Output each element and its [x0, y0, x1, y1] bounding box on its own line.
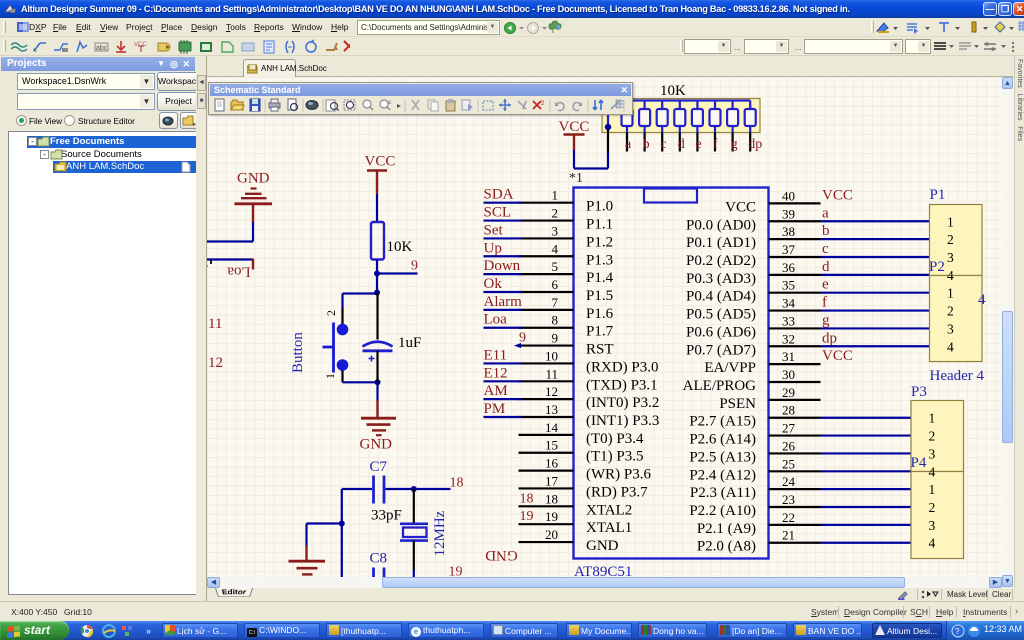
svg-text:Ok: Ok [484, 276, 503, 292]
svg-text:20: 20 [545, 527, 558, 542]
svg-text:1: 1 [323, 373, 337, 379]
svg-text:3: 3 [947, 250, 954, 265]
svg-text:SDA: SDA [484, 187, 514, 203]
svg-text:P1.4: P1.4 [586, 270, 614, 286]
svg-text:a: a [625, 137, 632, 152]
svg-text:VCC: VCC [559, 119, 590, 135]
svg-text:23: 23 [782, 492, 795, 507]
svg-text:P2.4 (A12): P2.4 (A12) [689, 467, 756, 483]
svg-text:ALE/PROG: ALE/PROG [683, 378, 757, 394]
svg-text:4: 4 [929, 536, 936, 551]
svg-text:b: b [822, 223, 830, 239]
svg-text:AM: AM [484, 383, 508, 399]
svg-text:d: d [822, 259, 830, 275]
svg-text:E11: E11 [484, 347, 508, 363]
svg-text:g: g [731, 137, 738, 152]
svg-text:2: 2 [929, 429, 936, 444]
svg-text:17: 17 [545, 473, 559, 488]
svg-text:P2: P2 [929, 259, 945, 275]
svg-text:Loa: Loa [227, 264, 251, 280]
svg-text:1: 1 [947, 214, 954, 229]
svg-text:P0.7 (AD7): P0.7 (AD7) [686, 342, 756, 358]
svg-text:P1.5: P1.5 [586, 288, 613, 304]
svg-text:P0.1 (AD1): P0.1 (AD1) [686, 235, 756, 251]
svg-text:Up: Up [484, 240, 502, 256]
svg-text:a: a [822, 205, 829, 221]
svg-text:24: 24 [782, 474, 796, 489]
svg-text:Set: Set [484, 222, 504, 238]
svg-text:2: 2 [541, 101, 545, 107]
svg-text:d: d [678, 137, 685, 152]
svg-text:19: 19 [545, 509, 558, 524]
svg-text:GND: GND [485, 547, 518, 563]
svg-text:1: 1 [929, 411, 936, 426]
svg-text:(WR) P3.6: (WR) P3.6 [586, 467, 651, 483]
svg-text:P2.1 (A9): P2.1 (A9) [697, 521, 756, 537]
svg-text:2: 2 [947, 304, 954, 319]
svg-text:12MHz: 12MHz [432, 510, 448, 556]
svg-text:2: 2 [324, 310, 338, 316]
svg-text:12: 12 [208, 355, 223, 371]
svg-text:7: 7 [552, 295, 559, 310]
svg-text:P1.1: P1.1 [586, 217, 613, 233]
svg-text:(RXD) P3.0: (RXD) P3.0 [586, 359, 659, 375]
svg-text:1uF: 1uF [398, 335, 421, 351]
svg-text:35: 35 [782, 278, 795, 293]
svg-text:Loa: Loa [484, 312, 508, 328]
svg-text:AT89C51: AT89C51 [574, 564, 632, 577]
svg-text:P1.0: P1.0 [586, 199, 613, 215]
svg-text:9: 9 [552, 331, 559, 346]
svg-text:s: s [388, 100, 391, 106]
svg-text:19: 19 [520, 509, 534, 524]
svg-text:P1: P1 [930, 187, 946, 203]
svg-text:P2.3 (A11): P2.3 (A11) [690, 485, 756, 501]
svg-text:abc: abc [96, 45, 108, 52]
svg-text:3: 3 [947, 321, 954, 336]
svg-text:18: 18 [450, 476, 464, 491]
svg-text:19: 19 [449, 565, 463, 578]
svg-text:c: c [822, 241, 829, 257]
svg-text:P2.5 (A13): P2.5 (A13) [689, 449, 756, 465]
svg-text:9: 9 [411, 259, 418, 274]
svg-text:1: 1 [552, 188, 559, 203]
svg-text:36: 36 [782, 260, 796, 275]
svg-text:c: c [660, 137, 666, 152]
svg-text:P2.6 (A14): P2.6 (A14) [689, 432, 756, 448]
svg-text:21: 21 [782, 528, 795, 543]
svg-text:»: » [146, 626, 151, 636]
svg-text:XTAL2: XTAL2 [586, 502, 632, 518]
svg-text:GND: GND [237, 171, 270, 187]
svg-text:25: 25 [782, 456, 795, 471]
svg-text:f: f [822, 295, 827, 311]
svg-text:14: 14 [545, 420, 559, 435]
svg-text:C8: C8 [370, 551, 388, 567]
svg-text:XTAL1: XTAL1 [586, 520, 632, 536]
svg-text:Down: Down [484, 258, 521, 274]
svg-text:Header 4: Header 4 [930, 368, 985, 384]
svg-text:1: 1 [929, 482, 936, 497]
svg-text:12: 12 [545, 384, 558, 399]
svg-text:f: f [713, 137, 718, 152]
svg-text:P3: P3 [911, 384, 927, 400]
svg-text:15: 15 [545, 438, 558, 453]
svg-text:*1: *1 [569, 171, 583, 186]
svg-text:GND: GND [360, 437, 393, 453]
svg-text:4: 4 [929, 464, 936, 479]
svg-text:dp: dp [822, 330, 837, 346]
svg-text:30: 30 [782, 367, 795, 382]
svg-text:VCC: VCC [822, 187, 853, 203]
svg-text:2: 2 [552, 206, 559, 221]
svg-text:18: 18 [520, 491, 534, 506]
svg-text:39: 39 [782, 206, 795, 221]
svg-text:b: b [643, 137, 650, 152]
svg-text:2: 2 [929, 500, 936, 515]
svg-text:3: 3 [929, 518, 936, 533]
svg-text:dp: dp [748, 137, 762, 152]
svg-text:Alarm: Alarm [484, 294, 523, 310]
svg-text:29: 29 [782, 385, 795, 400]
svg-text:P0.3 (AD3): P0.3 (AD3) [686, 271, 756, 287]
svg-text:E12: E12 [484, 365, 508, 381]
svg-text:34: 34 [782, 296, 796, 311]
svg-text:4: 4 [207, 257, 208, 271]
svg-text:22: 22 [782, 510, 795, 525]
svg-text:EA/VPP: EA/VPP [704, 360, 756, 376]
svg-text:1: 1 [947, 286, 954, 301]
svg-text:33: 33 [782, 313, 795, 328]
svg-text:11: 11 [208, 316, 222, 332]
svg-text:P0.6 (AD6): P0.6 (AD6) [686, 324, 756, 340]
svg-text:10: 10 [545, 348, 558, 363]
svg-text:P1.6: P1.6 [586, 306, 614, 322]
svg-text:P2.7 (A15): P2.7 (A15) [689, 414, 756, 430]
svg-text:VCC: VCC [822, 348, 853, 364]
svg-text:P0.0 (AD0): P0.0 (AD0) [686, 217, 756, 233]
svg-text:10K: 10K [660, 83, 686, 99]
svg-text:PSEN: PSEN [719, 396, 756, 412]
svg-text:40: 40 [782, 188, 795, 203]
svg-text:33pF: 33pF [371, 508, 402, 524]
svg-text:27: 27 [782, 421, 796, 436]
svg-text:(TXD) P3.1: (TXD) P3.1 [586, 377, 658, 393]
svg-text:37: 37 [782, 242, 796, 257]
svg-text:P2.2 (A10): P2.2 (A10) [689, 503, 756, 519]
svg-text:P4: P4 [911, 455, 927, 471]
svg-text:5: 5 [552, 259, 559, 274]
svg-text:GND: GND [586, 538, 619, 554]
svg-text:?: ? [955, 627, 960, 636]
svg-text:32: 32 [782, 331, 795, 346]
svg-text:11: 11 [545, 366, 558, 381]
svg-text:P2.0 (A8): P2.0 (A8) [697, 539, 756, 555]
svg-text:P1.3: P1.3 [586, 252, 613, 268]
svg-text:2: 2 [947, 232, 954, 247]
svg-text:8: 8 [552, 313, 559, 328]
svg-text:e: e [695, 137, 701, 152]
svg-text:6: 6 [552, 277, 559, 292]
svg-text:(RD) P3.7: (RD) P3.7 [586, 484, 648, 500]
svg-text:RST: RST [586, 342, 614, 358]
svg-text:4: 4 [947, 339, 954, 354]
svg-text:e: e [822, 277, 829, 293]
svg-text:4: 4 [552, 241, 559, 256]
svg-text:31: 31 [782, 349, 795, 364]
svg-text:P1.2: P1.2 [586, 234, 613, 250]
svg-text:38: 38 [782, 224, 795, 239]
svg-text:P0.5 (AD5): P0.5 (AD5) [686, 307, 756, 323]
svg-text:VCC: VCC [365, 154, 396, 170]
svg-text:P1.7: P1.7 [586, 324, 614, 340]
svg-text:C7: C7 [370, 459, 388, 475]
svg-text:(T0) P3.4: (T0) P3.4 [586, 431, 644, 447]
svg-text:(T1) P3.5: (T1) P3.5 [586, 449, 644, 465]
svg-text:10K: 10K [387, 239, 413, 255]
svg-text:3: 3 [929, 446, 936, 461]
svg-text:3: 3 [552, 223, 559, 238]
svg-text:(INT1) P3.3: (INT1) P3.3 [586, 413, 659, 429]
svg-text:4: 4 [947, 268, 954, 283]
svg-text:PM: PM [484, 401, 506, 417]
svg-text:Button: Button [290, 332, 306, 373]
svg-text:P0.4 (AD4): P0.4 (AD4) [686, 289, 756, 305]
svg-text:(INT0) P3.2: (INT0) P3.2 [586, 395, 659, 411]
svg-text:16: 16 [545, 456, 559, 471]
svg-text:28: 28 [782, 403, 795, 418]
svg-text:26: 26 [782, 438, 796, 453]
svg-text:P0.2 (AD2): P0.2 (AD2) [686, 253, 756, 269]
svg-text:9: 9 [519, 331, 526, 346]
svg-text:SCL: SCL [484, 205, 512, 221]
svg-text:18: 18 [545, 491, 558, 506]
svg-text:g: g [822, 312, 830, 328]
svg-text:4: 4 [978, 292, 986, 308]
svg-text:VCC: VCC [725, 199, 756, 215]
svg-text:13: 13 [545, 402, 558, 417]
